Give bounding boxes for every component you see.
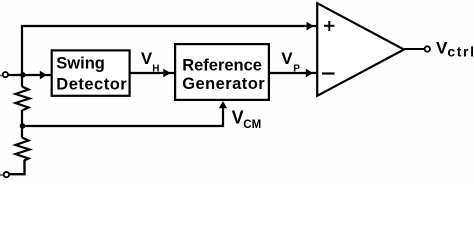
wire: node B to R2 [21,126,23,138]
wire: R1 to node B [21,110,23,126]
wire: input to swing detector [8,74,51,76]
svg-text:Generator: Generator [182,75,265,93]
node A junction dot [20,72,26,78]
resistor R1 [16,87,30,111]
node B junction dot [20,123,26,129]
svg-text:Detector: Detector [56,75,127,93]
svg-text:H: H [152,64,159,75]
wire: R2 down and left to terminal T2 [9,160,25,174]
wire: top feedback line from node A up and across to comparator + input [22,26,316,87]
svg-text:ctrl: ctrl [447,44,474,60]
input terminal T2 (open circle) [4,172,9,177]
svg-text:Reference: Reference [182,57,262,75]
arrowhead into swing detector [40,71,47,80]
input terminal T1 (open circle) [3,72,8,77]
wire: comparator output [404,48,425,50]
minus sign at - input [322,72,335,74]
input terminal T1 stub [0,75,3,77]
svg-text:V: V [436,39,448,58]
svg-text:P: P [293,63,300,74]
resistor R2 [16,138,30,161]
block: swing detector box [52,50,130,95]
output terminal (open circle) [425,46,430,51]
svg-text:CM: CM [243,119,261,131]
plus sign at + input [324,25,334,27]
arrowhead up into reference generator bottom [219,101,227,108]
input terminal T2 stub [0,174,3,176]
arrowhead into reference generator [163,69,170,78]
svg-text:V: V [232,108,244,128]
op-amp U1 triangle [317,3,404,96]
wire VP: reference generator to comparator - input [270,72,317,74]
block: reference generator box [175,44,269,100]
svg-text:V: V [141,49,153,68]
arrowhead at comparator - input [306,69,313,78]
arrowhead at comparator + input [307,22,315,31]
svg-text:V: V [281,49,293,68]
wire: VCM from node B right and up into reference generator [22,104,223,126]
wire VH: swing detector to reference generator [131,72,175,74]
svg-text:Swing: Swing [56,54,105,72]
